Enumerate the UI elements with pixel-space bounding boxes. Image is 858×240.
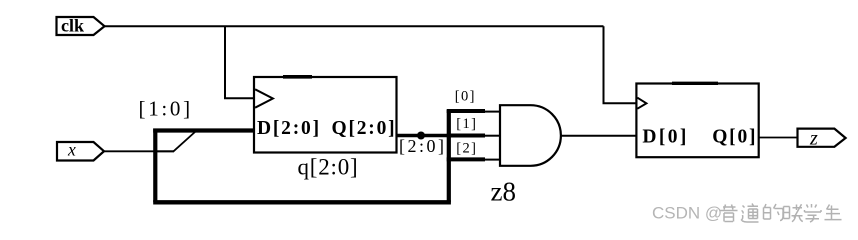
AND gate z8 (500, 105, 561, 166)
wire gate output to U2 D (561, 135, 637, 137)
svg-text:[1:0]: [1:0] (139, 97, 193, 121)
wire tap0 to gate (485, 111, 500, 113)
svg-text:Q[0]: Q[0] (712, 127, 757, 148)
scan smudge on U1 top edge (283, 75, 312, 79)
wire clk drop to U2 clock (604, 26, 637, 103)
junction dot (417, 132, 425, 140)
wire Q2 to z (759, 137, 798, 139)
bus feedback right vertical (447, 110, 451, 202)
bus to D input (153, 128, 255, 132)
U1 clock triangle (255, 89, 273, 107)
bit tap [0] stub (447, 109, 485, 113)
output port z (798, 127, 846, 149)
scan smudge on U2 top edge (672, 82, 718, 85)
wire stub to bus (156, 150, 175, 152)
wire clk trunk (105, 25, 604, 27)
svg-text:clk: clk (61, 16, 84, 36)
wire x net (104, 150, 174, 152)
watermark username glyph de (764, 204, 784, 221)
svg-text:q[2:0]: q[2:0] (298, 155, 359, 180)
svg-text:D[0]: D[0] (642, 127, 688, 148)
svg-text:Q[2:0]: Q[2:0] (332, 118, 397, 139)
watermark username glyph tong (741, 204, 759, 223)
bus ripper slant (174, 131, 197, 152)
input port clk (57, 16, 105, 36)
flip-flop U2 box (636, 84, 758, 158)
U2 clock triangle (637, 98, 646, 109)
bit tap [2] stub (447, 157, 485, 161)
input port x (57, 140, 104, 161)
bus feedback bottom (153, 200, 451, 204)
watermark username glyph xue (805, 204, 822, 222)
svg-text:D[2:0]: D[2:0] (257, 118, 321, 139)
watermark username glyph pu (720, 205, 738, 222)
wire tap1 to gate (485, 135, 500, 137)
watermark username glyph xiao (784, 204, 803, 222)
svg-text:[2:0]: [2:0] (399, 136, 447, 156)
svg-text:x: x (67, 140, 76, 160)
bit tap [1] stub (447, 134, 485, 138)
wire tap2 to gate (485, 159, 500, 161)
svg-text:z: z (809, 127, 818, 149)
watermark username glyph sheng (825, 205, 842, 220)
svg-text:[1]: [1] (456, 116, 477, 132)
wire clk branch to U1 clock (225, 26, 255, 98)
svg-text:CSDN @: CSDN @ (652, 204, 722, 223)
svg-text:[0]: [0] (455, 89, 476, 105)
svg-text:[2]: [2] (456, 140, 477, 156)
svg-text:z8: z8 (491, 177, 516, 207)
flip-flop U1 box (254, 77, 397, 153)
wire Q1 output (397, 134, 451, 138)
bus feedback left vertical (153, 129, 157, 203)
